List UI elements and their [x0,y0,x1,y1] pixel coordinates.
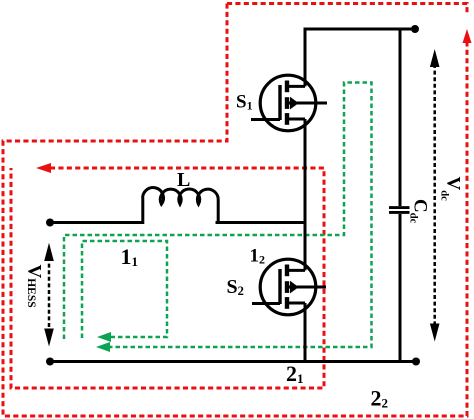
green inner dashed loop (mode 1-1 path) [82,241,167,338]
S2 body lead [289,286,326,289]
svg-text:12: 12 [250,246,266,267]
wire: bottom rail [50,360,416,363]
Vdc measure arrow (dashed, both ends) [433,64,436,327]
wire: left node to inductor [50,221,144,224]
node: top right [411,25,419,33]
svg-text:L: L [177,169,190,191]
capacitor Cdc bottom lead [399,214,402,363]
S1 drain connect [287,85,305,88]
capacitor Cdc plates [389,206,410,209]
svg-text:VHESS: VHESS [24,265,45,308]
S2 drain connect [287,269,305,272]
svg-text:11: 11 [121,244,139,269]
red inner loop left arrowhead [36,163,51,173]
wire: S1 source to S2 drain (midpoint leg) [304,119,307,270]
S1 source connect [287,118,305,121]
green inner loop left arrowhead [97,332,111,342]
wire: drain of S1 from top rail [304,28,307,87]
wire: S2 source to bottom rail [304,303,307,363]
S1 gate bar [278,85,281,120]
svg-text:S1: S1 [236,92,253,113]
S2 body arrow [290,281,299,294]
svg-text:21: 21 [286,361,304,386]
green outer loop left arrowhead [96,342,110,352]
svg-text:Vdc: Vdc [439,177,464,202]
S1 channel dashes [285,81,289,93]
S2 gate lead [252,302,280,305]
node: bottom right [412,358,420,366]
node: bottom left [46,358,54,366]
svg-text:S2: S2 [227,276,244,298]
red inner dashed loop (mode 2-1 path) [11,168,324,388]
capacitor Cdc top lead [399,29,402,206]
S2 gate bar [278,269,281,304]
svg-text:22: 22 [371,386,389,411]
node: left top [46,219,54,227]
wire: top rail [304,28,415,31]
S2 channel dashes [285,265,289,277]
red outer dashed loop (mode 2-2 path) top segment [227,4,467,14]
S1 body lead [289,102,327,105]
svg-text:Cdc: Cdc [408,199,431,224]
switch S2: MOSFET body circle [252,259,326,315]
green outer dashed loop (mode 1-2 path) [64,83,372,348]
wire: inductor to midpoint [216,221,307,224]
inductor L [143,188,219,224]
S1 gate lead [251,118,280,121]
red outer loop up arrowhead [463,29,472,43]
S2 source connect [287,302,305,305]
op switch S1: MOSFET body circle [251,75,327,131]
S1 body arrow [290,97,299,110]
VHESS measure arrow (dashed, both ends) [48,257,51,332]
